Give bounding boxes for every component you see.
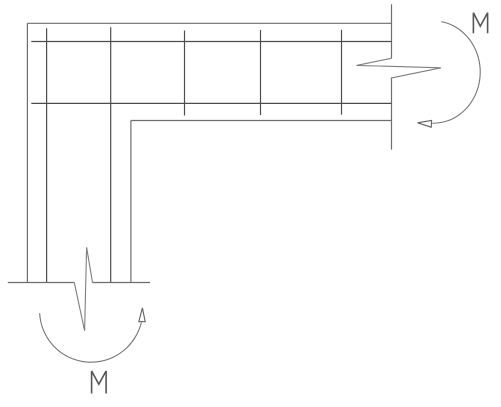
wire: column cut bottom line right segment	[93, 282, 151, 284]
label M top right	[473, 13, 487, 34]
wire: stirrup 1	[184, 31, 186, 116]
moment arc top right	[432, 22, 480, 124]
wire: column cut bottom line left segment	[8, 282, 75, 284]
arrowhead of top right moment arc	[418, 120, 432, 127]
wire: beam bottom rebar	[31, 102, 391, 104]
wire: column break zigzag	[74, 247, 92, 330]
wire: beam bottom edge	[131, 120, 392, 122]
wire: beam cut end line upper segment	[391, 4, 393, 58]
wire: column outer rebar	[46, 28, 48, 282]
wire: column left edge	[26, 23, 28, 282]
wire: column inner rebar	[110, 27, 112, 282]
moment arc bottom left	[40, 313, 142, 362]
wire: beam break zigzag	[357, 58, 442, 78]
arrowhead of bottom left moment arc	[139, 308, 145, 322]
wire: beam top rebar	[31, 41, 391, 43]
wire: stirrup 3	[341, 30, 343, 115]
wire: stirrup 2	[260, 30, 262, 115]
wire: beam cut end line lower segment	[391, 78, 393, 150]
wire: column inner edge	[130, 121, 132, 283]
label M bottom left	[92, 371, 107, 394]
wire: beam top edge	[27, 22, 391, 24]
